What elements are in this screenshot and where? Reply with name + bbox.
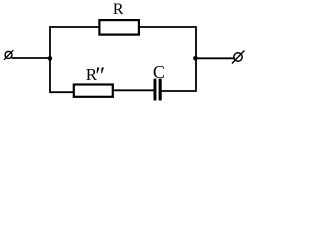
- svg-text:″: ″: [95, 63, 105, 89]
- svg-text:R: R: [113, 1, 124, 18]
- svg-text:C: C: [153, 62, 165, 82]
